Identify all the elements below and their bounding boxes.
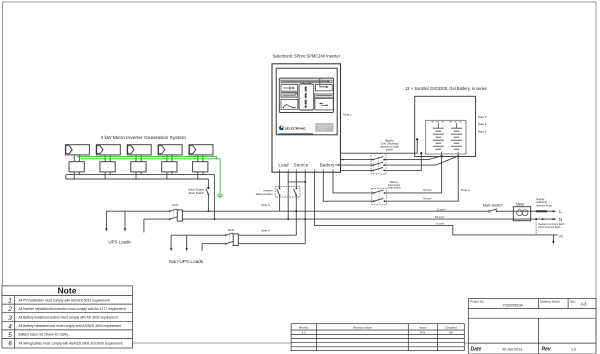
PV panel PV3 bbox=[127, 145, 151, 155]
svg-text:6: 6 bbox=[8, 341, 12, 348]
svg-text:disconnection: disconnection bbox=[256, 192, 274, 196]
node MEN link bbox=[535, 218, 537, 220]
RCD 2 (non-UPS) bbox=[225, 228, 238, 246]
svg-text:main switch: main switch bbox=[387, 186, 401, 190]
wire load active down bbox=[279, 172, 281, 188]
svg-text:Checked: Checked bbox=[445, 326, 457, 330]
terminal label Battery bbox=[320, 163, 340, 168]
revision table bbox=[291, 324, 464, 351]
svg-text:All Battery hardware/rack must: All Battery hardware/rack must comply wi… bbox=[19, 324, 122, 328]
micro inverter M4 bbox=[162, 155, 177, 179]
svg-text:1.0: 1.0 bbox=[571, 347, 576, 351]
svg-text:Meter: Meter bbox=[516, 203, 525, 207]
svg-text:Supply: Supply bbox=[536, 197, 545, 201]
svg-text:Note 3: Note 3 bbox=[478, 115, 487, 119]
earth wire green upper bbox=[77, 157, 217, 159]
node battery negative bbox=[457, 155, 459, 157]
MEN link (dashed) bbox=[535, 219, 537, 235]
svg-text:Revision Note: Revision Note bbox=[353, 326, 372, 330]
main switch SW2 bbox=[483, 204, 503, 213]
wire non-UPS neutral stub bbox=[201, 244, 203, 251]
svg-text:1.0: 1.0 bbox=[302, 330, 306, 334]
ground (array earth) bbox=[217, 195, 224, 198]
svg-text:Selectronic SPpro SPMC240 Inve: Selectronic SPpro SPMC240 Inverter bbox=[273, 53, 341, 58]
svg-text:L: L bbox=[559, 209, 562, 214]
svg-text:Battery fuses not shown for cl: Battery fuses not shown for clarity. bbox=[19, 333, 69, 337]
svg-text:16 mm²: 16 mm² bbox=[435, 215, 444, 219]
svg-text:PE: PE bbox=[560, 234, 564, 238]
svg-text:Note 6: Note 6 bbox=[261, 229, 270, 233]
svg-text:3: 3 bbox=[8, 315, 12, 322]
wire source neutral down bbox=[304, 172, 306, 244]
svg-text:link in Common Earth: link in Common Earth bbox=[538, 226, 561, 229]
node source-L grid junction bbox=[295, 210, 297, 212]
wire neutral line bbox=[144, 218, 556, 220]
terminal ticks bbox=[280, 170, 333, 173]
sense exit arrow bbox=[341, 159, 344, 161]
screen box: transfer arrows bbox=[315, 99, 333, 110]
svg-text:4 kW Micro Inverter Generation: 4 kW Micro Inverter Generation System bbox=[100, 135, 186, 141]
svg-text:Service Fuse: Service Fuse bbox=[536, 204, 552, 208]
svg-text:09-Jan-2013: 09-Jan-2013 bbox=[502, 347, 522, 351]
non-UPS load feeder arrows bbox=[170, 235, 188, 251]
inverter screen panel bbox=[279, 78, 333, 112]
svg-text:Note 6: Note 6 bbox=[261, 203, 270, 207]
svg-text:70 mm²: 70 mm² bbox=[422, 188, 431, 192]
screen box: inverter bridge bbox=[299, 82, 314, 110]
svg-text:JW: JW bbox=[449, 330, 453, 334]
inverter front face bbox=[276, 68, 337, 135]
node solar-N junction bbox=[213, 218, 215, 220]
wire solar neutral drop bbox=[213, 175, 215, 220]
micro inverter M2 bbox=[100, 155, 115, 179]
svg-text:Source: Source bbox=[294, 163, 309, 168]
svg-text:All wiring/cables must comply: All wiring/cables must comply with AS/NZ… bbox=[19, 341, 124, 345]
AC bus left end bbox=[65, 175, 67, 179]
battery terminal ticks bbox=[432, 121, 462, 123]
svg-text:All PV installation must compl: All PV installation must comply with AS/… bbox=[19, 298, 111, 302]
svg-text:A3: A3 bbox=[581, 302, 587, 307]
node jumper junction bbox=[304, 181, 306, 183]
svg-text:Date: Date bbox=[471, 347, 482, 353]
grid N terminal arrow bbox=[542, 217, 562, 222]
PV panel PV5 bbox=[189, 145, 213, 155]
svg-text:5: 5 bbox=[8, 332, 12, 339]
battery over discharge disconnect contactor K1 bbox=[371, 138, 399, 174]
wire contactor feed 1 bbox=[341, 156, 442, 160]
solar supply main switch SW1 bbox=[188, 187, 210, 195]
screen box: grid in arrow bbox=[315, 79, 332, 91]
UPS load feeder arrows bbox=[105, 211, 126, 231]
ground (main earth) bbox=[552, 234, 563, 244]
svg-text:Rev: Rev bbox=[542, 347, 552, 353]
svg-text:switch: switch bbox=[386, 148, 394, 152]
title block bbox=[468, 299, 596, 354]
svg-text:6 mm²: 6 mm² bbox=[436, 222, 444, 226]
svg-text:Load: Load bbox=[279, 163, 290, 168]
svg-text:Authority: Authority bbox=[536, 200, 547, 204]
svg-text:Note 1: Note 1 bbox=[343, 113, 352, 117]
node source-N junction bbox=[304, 218, 306, 220]
AC bus top line bbox=[66, 174, 215, 176]
svg-text:Neutral to Common Earth: Neutral to Common Earth bbox=[538, 223, 565, 226]
battery disconnect switch K2 bbox=[372, 180, 401, 205]
svg-text:Non-UPS Loads: Non-UPS Loads bbox=[169, 259, 204, 264]
micro inverter M1 bbox=[69, 155, 84, 179]
svg-text:Note 2: Note 2 bbox=[461, 188, 470, 192]
logo Selectronic bbox=[279, 126, 314, 134]
wire earth run bbox=[315, 225, 558, 235]
svg-text:All Battery install/connection: All Battery install/connection must comp… bbox=[19, 316, 119, 320]
wire UPS neutral stub bbox=[143, 219, 145, 232]
battery bank enclosure bbox=[415, 96, 476, 156]
svg-text:Issue: Issue bbox=[419, 326, 427, 330]
wire source active down bbox=[295, 172, 297, 188]
screen vent bar with arrow bbox=[281, 80, 332, 83]
svg-text:Main Switch: Main Switch bbox=[483, 204, 503, 208]
svg-text:RCD: RCD bbox=[228, 228, 234, 232]
PV panel PV1 bbox=[65, 145, 89, 155]
svg-text:RGI: RGI bbox=[420, 330, 425, 334]
svg-text:2: 2 bbox=[7, 306, 12, 313]
svg-text:16 mm²: 16 mm² bbox=[436, 207, 445, 211]
svg-text:All inverter installation/conn: All inverter installation/connection mus… bbox=[19, 307, 127, 311]
screen box: wave symbol bbox=[281, 99, 298, 109]
wire non-UPS line bbox=[171, 234, 296, 236]
svg-text:Battery: Battery bbox=[320, 163, 335, 168]
node sense terminal bbox=[416, 138, 418, 140]
node temp sense terminal bbox=[420, 152, 422, 154]
screen box: AC source arrow bbox=[281, 85, 298, 92]
wire source active to non-UPS line bbox=[295, 195, 297, 235]
inverter rating plate bbox=[316, 124, 333, 132]
wire UPS active line bbox=[106, 210, 553, 212]
svg-text:Main Switch: Main Switch bbox=[189, 191, 205, 195]
svg-text:Note 5: Note 5 bbox=[478, 129, 487, 133]
supply authority service fuse F1 bbox=[536, 197, 552, 211]
wire contactor feed 2 bbox=[341, 156, 459, 165]
inverter U1 outer case bbox=[272, 64, 341, 172]
PV panel PV2 bbox=[96, 145, 120, 155]
node battery positive bbox=[441, 155, 443, 157]
battery cable positive bbox=[333, 156, 442, 193]
svg-text:RONIC: RONIC bbox=[296, 126, 307, 130]
wire temp sense bbox=[341, 153, 422, 170]
battery cable negative bbox=[323, 156, 458, 201]
battery string 2 bbox=[451, 123, 462, 156]
wire battery voltage sense bbox=[341, 139, 418, 153]
svg-text:RCD: RCD bbox=[172, 203, 178, 207]
label MEN link bbox=[538, 223, 565, 229]
RCD 1 (UPS) bbox=[169, 203, 182, 221]
micro inverter M3 bbox=[131, 155, 146, 179]
screen box: shunt lines bbox=[281, 93, 298, 98]
svg-text:Project No.: Project No. bbox=[470, 300, 484, 304]
wire solar active drop bbox=[207, 179, 209, 188]
svg-text:12 × SonXtel 2SG3300, Gel Batt: 12 × SonXtel 2SG3300, Gel Battery, in se… bbox=[405, 86, 487, 91]
svg-text:Size: Size bbox=[570, 300, 576, 304]
svg-text:4: 4 bbox=[8, 323, 12, 330]
grid L terminal arrow bbox=[553, 209, 563, 214]
svg-text:P10000810A: P10000810A bbox=[503, 303, 523, 307]
battery bank inner frame bbox=[426, 120, 466, 154]
svg-text:UPS Loads: UPS Loads bbox=[108, 240, 131, 245]
svg-text:1: 1 bbox=[8, 298, 12, 305]
micro inverter M5 bbox=[193, 155, 208, 179]
inverter disconnection switches (dashed enclosure) bbox=[256, 187, 300, 197]
wire solar active to L node bbox=[207, 195, 209, 212]
PV panel PV4 bbox=[158, 145, 182, 155]
wire neutral jumper bbox=[288, 181, 305, 183]
svg-text:Note 4: Note 4 bbox=[478, 122, 487, 126]
svg-text:Note: Note bbox=[57, 286, 76, 296]
svg-text:Drawing Status: Drawing Status bbox=[540, 300, 560, 304]
kWh meter bbox=[513, 203, 530, 221]
wire source earth down bbox=[314, 172, 316, 225]
notes table bbox=[2, 286, 133, 348]
node solar-L junction bbox=[207, 210, 209, 212]
wire non-UPS neutral bbox=[202, 243, 305, 245]
wire load neutral down bbox=[287, 172, 289, 219]
wire load active to UPS line bbox=[279, 195, 281, 211]
svg-text:RevNo: RevNo bbox=[299, 326, 309, 330]
battery string 1 bbox=[433, 123, 444, 156]
svg-text:70 mm²: 70 mm² bbox=[422, 197, 431, 201]
AC bus bottom line bbox=[66, 178, 209, 180]
screen box: status bar bbox=[315, 94, 333, 97]
node load-N junction bbox=[287, 218, 289, 220]
earth wire green lower bbox=[81, 159, 220, 195]
svg-text:N: N bbox=[559, 217, 562, 222]
